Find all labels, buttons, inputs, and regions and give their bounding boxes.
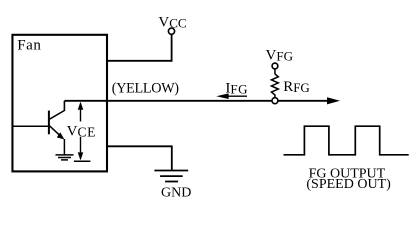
node junction (open circle) bbox=[272, 98, 278, 104]
ground GND bbox=[154, 171, 188, 182]
svg-text:VFG: VFG bbox=[266, 47, 293, 63]
svg-text:(YELLOW): (YELLOW) bbox=[112, 81, 180, 97]
FG output waveform bbox=[284, 126, 409, 155]
svg-text:Fan: Fan bbox=[17, 38, 41, 54]
svg-text:IFG: IFG bbox=[225, 81, 248, 97]
fan enclosure box bbox=[12, 35, 107, 172]
svg-text:GND: GND bbox=[161, 186, 191, 201]
wire fan box to GND bbox=[108, 146, 172, 170]
internal ground (emitter) bbox=[56, 155, 74, 160]
svg-text:(SPEED OUT): (SPEED OUT) bbox=[306, 177, 391, 192]
VCE dimension arrows bbox=[74, 102, 91, 162]
VFG terminal bbox=[272, 63, 278, 69]
IFG current arrow bbox=[216, 93, 247, 99]
wire VFG to RFG bbox=[274, 69, 276, 74]
wire collector / FG line bbox=[64, 100, 328, 102]
arrow FG output direction bbox=[327, 97, 340, 104]
svg-text:VCE: VCE bbox=[67, 123, 97, 139]
wire VCC to fan box bbox=[108, 35, 172, 61]
svg-text:RFG: RFG bbox=[283, 79, 310, 95]
transistor Q1 (NPN) bbox=[13, 101, 64, 155]
resistor RFG bbox=[271, 74, 278, 97]
VCC terminal bbox=[168, 28, 174, 34]
